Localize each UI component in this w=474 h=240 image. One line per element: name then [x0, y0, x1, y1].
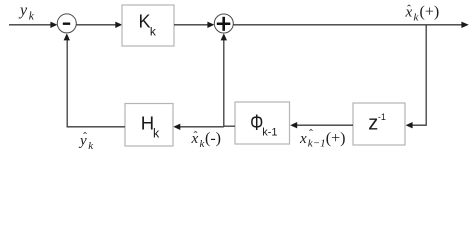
svg-text:x: x	[405, 4, 413, 20]
node x_hat_k-1(+) label	[299, 127, 345, 150]
svg-text:k: k	[88, 140, 94, 152]
svg-text:(+): (+)	[326, 130, 346, 147]
wire: node x_hat_k(-) into block H_k	[173, 124, 224, 130]
svg-text:x: x	[191, 131, 199, 147]
svg-text:K: K	[139, 12, 151, 32]
svg-text:(+): (+)	[420, 3, 440, 20]
svg-text:k: k	[153, 126, 160, 140]
wire: K_k to summing junction S2	[174, 22, 214, 28]
summing junction S1	[57, 14, 76, 33]
summing junction S2	[214, 14, 233, 33]
block K_k	[122, 5, 174, 46]
block z^-1	[353, 103, 405, 145]
wire: S2 to output arrow (top right)	[233, 22, 469, 28]
wire: H_k feedback up into S1	[64, 33, 125, 126]
svg-text:y: y	[18, 2, 28, 19]
block Phi_k-1	[235, 102, 290, 144]
wire: S1 to block K_k	[76, 22, 122, 28]
plus sign in S2	[217, 17, 231, 31]
wire: Phi_k-1 to node x_hat_k(-)	[224, 125, 235, 127]
svg-text:k: k	[29, 10, 35, 22]
svg-text:y: y	[78, 133, 87, 149]
node x_hat_k(+) output label	[405, 2, 440, 24]
svg-text:k: k	[150, 24, 157, 38]
node y_hat_k label	[78, 130, 94, 153]
wire: input y_k into summing junction S1	[9, 22, 57, 28]
svg-text:k-1: k-1	[262, 126, 277, 138]
svg-text:k−1: k−1	[308, 138, 326, 150]
svg-text:z: z	[368, 113, 378, 135]
svg-text:-1: -1	[378, 112, 386, 122]
node x_hat_k(-) label	[191, 129, 221, 151]
wire: output branch down to z^-1	[406, 25, 427, 128]
wire: node x_hat_k(-) up into S2	[221, 33, 227, 126]
svg-text:x: x	[299, 131, 307, 147]
minus sign in S1	[63, 23, 70, 25]
wire: z^-1 to block Phi_k-1	[290, 122, 353, 128]
block H_k	[125, 104, 173, 147]
svg-text:(-): (-)	[205, 130, 221, 147]
node y_k input label	[18, 2, 35, 23]
